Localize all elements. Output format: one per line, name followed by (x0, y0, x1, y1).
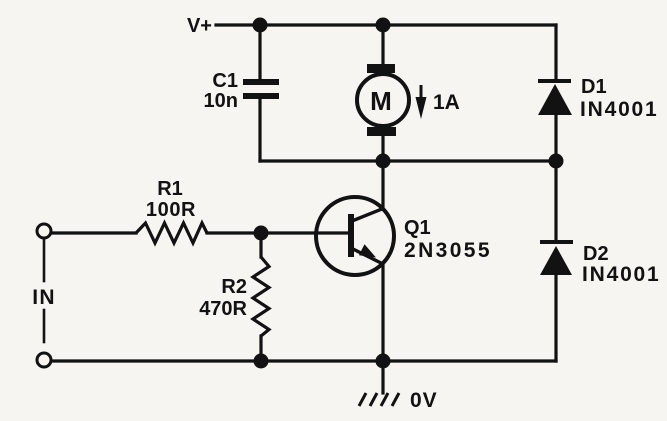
wire C1 bottom lead (258, 99, 261, 161)
wire collector lead (mid rail down to Q1) (381, 161, 384, 209)
diode D2 (540, 242, 573, 275)
svg-text:R2: R2 (221, 276, 247, 298)
node junction top C1 (253, 18, 268, 33)
svg-text:1A: 1A (433, 91, 460, 114)
wire top rail V+ to right corner (216, 23, 556, 26)
node junction base R2 (254, 226, 269, 241)
motor M1 (357, 64, 409, 136)
svg-text:100R: 100R (146, 199, 196, 221)
svg-text:R1: R1 (157, 178, 183, 200)
wire R1 to base junction and Q1 base (207, 231, 348, 234)
svg-text:0V: 0V (410, 389, 438, 412)
node junction top motor (376, 18, 391, 33)
wire R2 bottom lead (259, 336, 262, 361)
svg-text:IN: IN (32, 286, 55, 309)
svg-text:10n: 10n (204, 90, 238, 112)
svg-text:2N3055: 2N3055 (404, 239, 492, 262)
node junction bottom R2 (254, 354, 269, 369)
wire C1 top lead (258, 25, 261, 79)
svg-text:M: M (370, 86, 392, 116)
wire emitter lead down to bottom rail (381, 263, 384, 361)
wire R2 top lead (259, 233, 262, 257)
resistor R1 (136, 223, 207, 243)
svg-text:D1: D1 (581, 76, 607, 98)
svg-text:IN4001: IN4001 (580, 98, 659, 121)
svg-text:470R: 470R (199, 298, 247, 320)
wire motor top lead (381, 25, 384, 65)
wire mid rail (C1 bottom to right branch) (260, 159, 556, 162)
wire ground stub (381, 361, 384, 393)
node junction mid motor (376, 154, 391, 169)
diode D1 (538, 81, 572, 115)
resistor R2 (253, 257, 269, 336)
node junction mid right (549, 154, 564, 169)
wire IN terminal link lower (43, 310, 46, 342)
wire base lead (IN terminal to R1) (51, 231, 136, 234)
wire IN terminal link upper (43, 240, 46, 281)
wire D1 anode down to mid-rail junction (554, 115, 557, 241)
ground (359, 393, 399, 406)
svg-text:Q1: Q1 (404, 217, 431, 239)
terminal IN lower (37, 353, 51, 367)
svg-text:C1: C1 (212, 70, 238, 92)
wire right branch upper (top rail down to D1 cathode) (554, 25, 557, 80)
current arrow 1A (416, 85, 427, 119)
wire D2 anode down to bottom rail (554, 275, 557, 361)
node junction bottom emitter (376, 354, 391, 369)
capacitor C1 (243, 79, 279, 99)
svg-text:V+: V+ (187, 15, 212, 37)
wire motor bottom lead to mid rail (381, 136, 384, 161)
svg-text:D2: D2 (583, 243, 609, 265)
svg-text:IN4001: IN4001 (582, 263, 661, 286)
wire bottom rail (IN lower terminal to right branch) (51, 359, 556, 362)
transistor Q1 (316, 197, 394, 275)
terminal IN upper (37, 224, 51, 238)
